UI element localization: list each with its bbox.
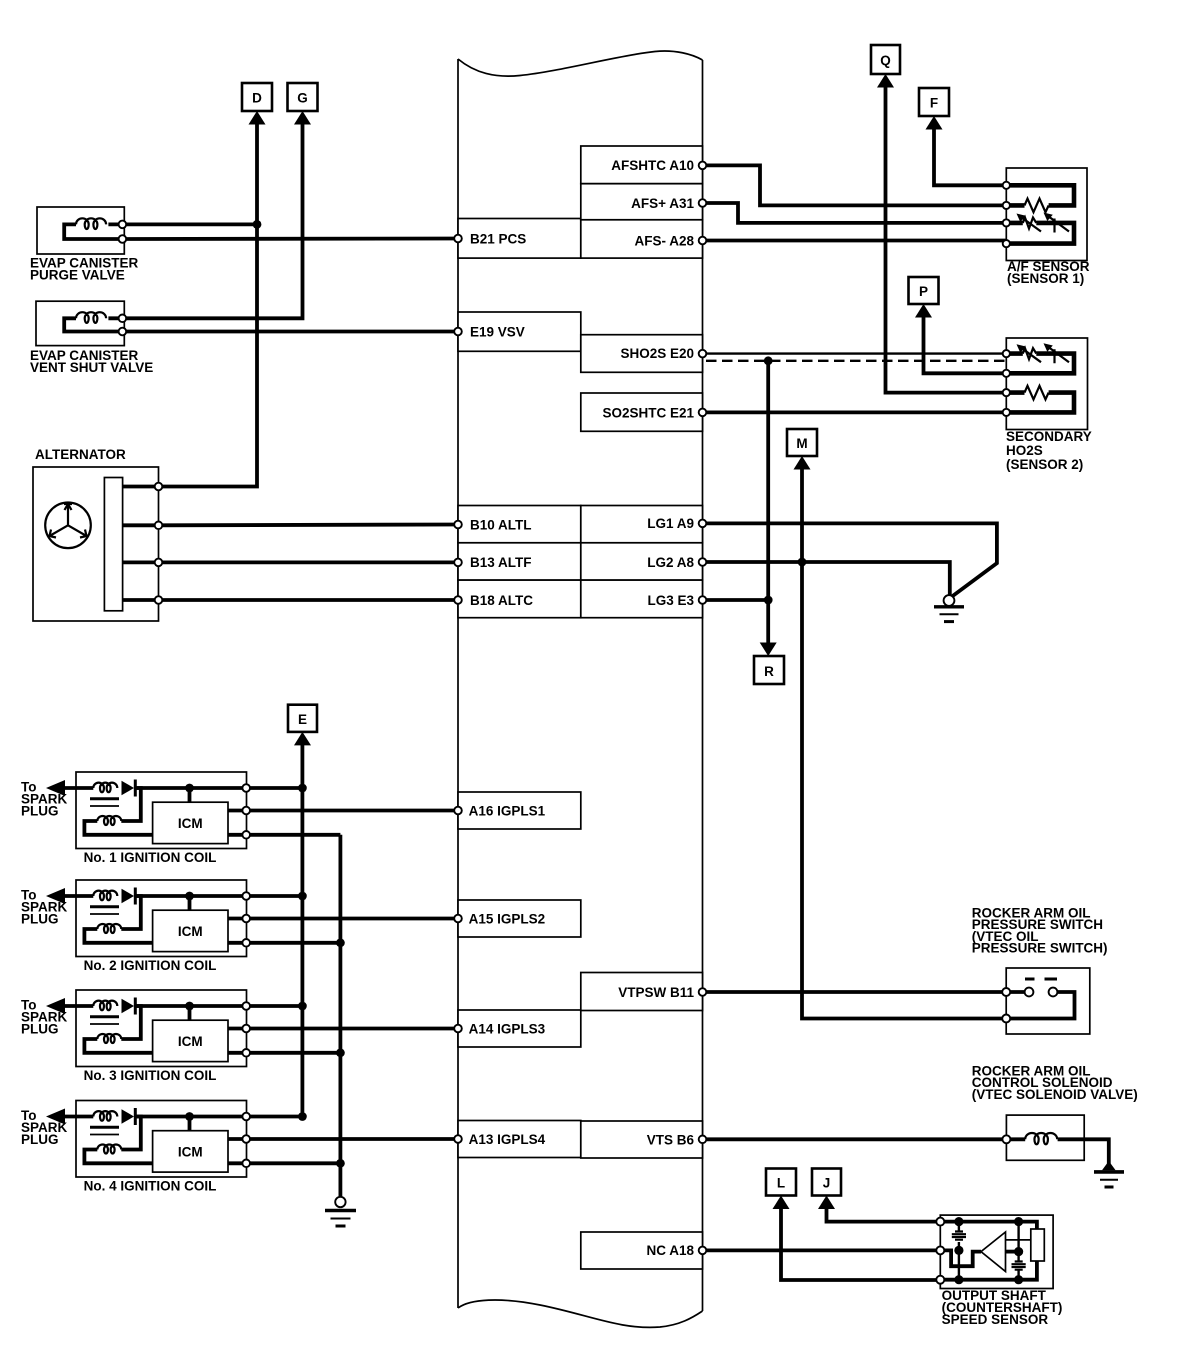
arrow into Q (877, 74, 894, 88)
svg-text:SECONDARY: SECONDARY (1006, 429, 1092, 444)
rocker arm oil pressure switch (1002, 968, 1090, 1034)
wire SO2SHTC E21 to HO2S terminal 4 (703, 410, 1007, 414)
svg-text:M: M (796, 436, 807, 451)
switch contacts (1025, 988, 1034, 997)
ignition coil No.2 (21, 880, 462, 957)
pin box E19 VSV (458, 312, 581, 351)
svg-text:No. 3 IGNITION COIL: No. 3 IGNITION COIL (84, 1068, 217, 1083)
variable arrow 2 with tick (1048, 216, 1069, 233)
svg-text:(SENSOR 1): (SENSOR 1) (1007, 271, 1084, 286)
ground symbol LG (934, 595, 964, 622)
svg-text:B21 PCS: B21 PCS (470, 231, 526, 246)
pin box B10 ALTL (458, 506, 581, 543)
wire M to pressure switch (802, 467, 1006, 1019)
terminal LG3 E3 (699, 596, 707, 604)
coil winding (76, 218, 106, 229)
connector box P (909, 277, 939, 304)
arrow into R (downward) (760, 643, 777, 657)
svg-text:No. 4 IGNITION COIL: No. 4 IGNITION COIL (84, 1179, 217, 1194)
wire VTPSW B11 to switch (703, 990, 1007, 994)
junction dot coil4 ground (336, 1159, 345, 1168)
svg-text:AFS+ A31: AFS+ A31 (631, 196, 694, 211)
wire alternator to B13 ALTF (159, 561, 459, 565)
wire AFS+ A31 to A/F sensor terminal 3 (703, 203, 1007, 223)
wire VTS B6 to solenoid (703, 1137, 1007, 1141)
wire AFSHTC A10 to A/F sensor terminal 2 (703, 165, 1007, 205)
output shaft (countershaft) speed sensor (936, 1215, 1053, 1288)
wire purge valve t2 to B21 PCS (122, 237, 458, 241)
switch internal wiring (1006, 992, 1074, 1019)
svg-text:F: F (930, 96, 938, 111)
wire solenoid to ground (1084, 1139, 1109, 1165)
alternator terminal wires (123, 487, 159, 601)
junction dot coil3 ground (336, 1048, 345, 1057)
wire F to A/F sensor terminal 1 (934, 127, 1006, 185)
svg-text:LG1 A9: LG1 A9 (647, 516, 694, 531)
wire shield to R (766, 361, 770, 645)
svg-text:NC A18: NC A18 (646, 1243, 694, 1258)
svg-text:L: L (777, 1176, 785, 1191)
pin box A15 IGPLS2 (458, 900, 581, 937)
wire L to speed sensor t3 (781, 1207, 940, 1280)
svg-text:A16 IGPLS1: A16 IGPLS1 (469, 803, 546, 818)
arrow into L (773, 1196, 790, 1210)
ignition coil No.3 (21, 990, 462, 1067)
connector box L (766, 1169, 796, 1196)
shield dashed line (706, 360, 1006, 362)
wire J to speed sensor t1 (827, 1207, 941, 1222)
pin box AFSHTC A10 (581, 146, 703, 184)
svg-text:B10 ALTL: B10 ALTL (470, 517, 532, 532)
svg-text:LG2 A8: LG2 A8 (647, 555, 694, 570)
junction dot shield to R (764, 356, 773, 365)
heater loop t1-t2 (1006, 185, 1074, 205)
svg-text:D: D (252, 91, 262, 106)
terminal VTS B6 (699, 1136, 707, 1144)
wire AFS- A28 to A/F sensor terminal 4 (703, 239, 1007, 243)
terminal B13 ALTF (454, 559, 462, 567)
wire alternator to B10 ALTL (159, 523, 459, 528)
ground symbol for ignition coils (325, 1197, 356, 1226)
rocker arm oil control solenoid (VTEC solenoid valve) (1002, 1115, 1084, 1160)
variable arrow 1 (1021, 217, 1041, 232)
terminal alternator t3 (155, 559, 163, 567)
arrow into J (818, 1196, 835, 1210)
pin box A13 IGPLS4 (458, 1121, 581, 1158)
terminal purge t2 (119, 235, 127, 243)
terminal AFS- A28 (699, 237, 707, 245)
middle internal wire to amp (940, 1250, 981, 1266)
terminal B18 ALTC (454, 596, 462, 604)
sensing element loop t1-t2 (1006, 354, 1074, 374)
svg-text:(SENSOR 2): (SENSOR 2) (1006, 457, 1083, 472)
terminal E19 VSV (454, 328, 462, 336)
pin box SHO2S E20 (581, 335, 703, 373)
sensor terminals (936, 1218, 944, 1226)
terminal VTPSW B11 (699, 988, 707, 996)
internal wiring (64, 224, 122, 239)
svg-text:VENT SHUT VALVE: VENT SHUT VALVE (30, 360, 153, 375)
svg-text:R: R (764, 664, 774, 679)
pin box A14 IGPLS3 (458, 1010, 581, 1047)
resistor R heater (1025, 199, 1049, 213)
arrow into D (249, 111, 266, 125)
terminal alternator t4 (155, 596, 163, 604)
wire LG2 A8 to ground (703, 562, 950, 595)
wire alternator to B18 ALTC (159, 598, 459, 602)
pin box B13 ALTF (458, 543, 581, 580)
pin box LG2 A8 (581, 543, 703, 580)
ignition coil common ground line (338, 835, 342, 1197)
pin box VTPSW B11 (581, 973, 703, 1011)
svg-text:No. 2 IGNITION COIL: No. 2 IGNITION COIL (84, 958, 217, 973)
sensor terminals (1003, 350, 1010, 357)
pin box NC A18 (581, 1232, 703, 1269)
pin box SO2SHTC E21 (581, 393, 703, 431)
connector box G (288, 83, 318, 111)
A/F sensor (sensor 1) (1003, 168, 1087, 261)
connector box M (787, 429, 817, 456)
connector box F (919, 88, 949, 116)
pin box AFS+ A31 (581, 184, 703, 220)
label OUTPUT SHAFT (COUNTERSHAFT) SPEED SENSOR (942, 1288, 1063, 1327)
arrow into M (794, 456, 811, 470)
contact bars (1025, 978, 1057, 981)
pin box A16 IGPLS1 (458, 792, 581, 829)
amp outputs (1006, 1239, 1031, 1241)
heater loop t3-t4 (1006, 393, 1074, 413)
variable zigzag element (1023, 218, 1037, 229)
terminal NC A18 (699, 1247, 707, 1255)
sensing element loop t3-t4 (1006, 223, 1074, 244)
wire E common line (300, 743, 304, 1117)
svg-text:HO2S: HO2S (1006, 443, 1043, 458)
ignition coil No.4 (21, 1101, 462, 1178)
arrow into G (294, 111, 311, 125)
op-amp triangle (981, 1232, 1006, 1272)
svg-text:VTS B6: VTS B6 (647, 1132, 695, 1147)
junction dots (954, 1217, 963, 1226)
svg-text:Q: Q (880, 53, 891, 68)
terminal LG2 A8 (699, 558, 707, 566)
junction dot R line on LG3 (764, 596, 773, 605)
bottom internal wire (940, 1261, 1037, 1280)
label ROCKER ARM OIL PRESSURE SWITCH (972, 906, 1108, 956)
junction dot coil2 ground (336, 938, 345, 947)
terminal vent t2 (119, 328, 127, 336)
wire NC A18 to speed sensor t2 (703, 1249, 941, 1253)
connector box E (288, 705, 317, 732)
wire P to HO2S terminal 2 (924, 315, 1007, 373)
svg-text:PRESSURE SWITCH): PRESSURE SWITCH) (972, 941, 1108, 956)
ALTERNATOR (33, 447, 159, 621)
pin box B18 ALTC (458, 580, 581, 618)
alternator 3-phase symbol (45, 503, 91, 549)
resistor heater (1025, 386, 1049, 400)
junction dot purge/D (253, 220, 262, 229)
connector box D (242, 83, 272, 111)
svg-text:PURGE VALVE: PURGE VALVE (30, 268, 125, 283)
terminal B21 PCS (454, 235, 462, 243)
pin box B21 PCS (458, 219, 581, 259)
variable zigzag element (1023, 348, 1037, 359)
wire G to vent shut valve (124, 122, 302, 318)
svg-text:AFS- A28: AFS- A28 (634, 233, 694, 248)
svg-text:SHO2S E20: SHO2S E20 (620, 346, 694, 361)
ignition coil No.1 (21, 772, 462, 849)
svg-text:No. 1 IGNITION COIL: No. 1 IGNITION COIL (84, 850, 217, 865)
terminal SHO2S E20 (699, 350, 707, 358)
terminal AFS+ A31 (699, 199, 707, 207)
terminal purge t1 (119, 221, 127, 229)
alternator connector bar (104, 478, 122, 611)
pin box LG3 E3 (581, 580, 703, 618)
svg-text:AFSHTC A10: AFSHTC A10 (611, 158, 694, 173)
pin box LG1 A9 (581, 506, 703, 543)
svg-text:SPEED SENSOR: SPEED SENSOR (942, 1312, 1049, 1327)
wire D to alternator (159, 122, 258, 487)
svg-text:(VTEC SOLENOID VALVE): (VTEC SOLENOID VALVE) (972, 1087, 1138, 1102)
arrow into P (915, 304, 932, 318)
wire Q to HO2S terminal 3 (886, 85, 1007, 393)
svg-text:E: E (298, 712, 307, 727)
internal wiring (64, 318, 122, 331)
right vertical with resistor (1017, 1222, 1019, 1280)
svg-text:B18 ALTC: B18 ALTC (470, 593, 533, 608)
variable arrow 2 with tick (1048, 347, 1069, 364)
variable arrow 1 (1021, 348, 1041, 363)
switch terminals (1002, 988, 1010, 996)
wire purge valve t1 to D line (122, 222, 257, 226)
terminal SO2SHTC E21 (699, 409, 707, 417)
svg-text:B13 ALTF: B13 ALTF (470, 555, 532, 570)
EVAP canister purge valve (37, 207, 124, 254)
svg-text:SO2SHTC E21: SO2SHTC E21 (602, 406, 694, 421)
secondary HO2S (sensor 2) (1003, 338, 1088, 430)
terminal LG1 A9 (699, 520, 707, 528)
coil winding (76, 312, 106, 323)
wire SHO2S E20 to HO2S terminal 1 (703, 352, 1007, 354)
EVAP canister vent shut valve (36, 301, 124, 345)
svg-text:VTPSW B11: VTPSW B11 (618, 985, 694, 1000)
terminal alternator t1 (155, 483, 163, 491)
wire vent valve t2 to E19 VSV (122, 330, 458, 334)
terminal AFSHTC A10 (699, 162, 707, 170)
ground symbol solenoid (1094, 1161, 1124, 1187)
pin box VTS B6 (581, 1121, 703, 1158)
coil winding (1025, 1133, 1057, 1144)
svg-text:A14 IGPLS3: A14 IGPLS3 (469, 1021, 546, 1036)
svg-text:P: P (919, 284, 928, 299)
svg-text:ALTERNATOR: ALTERNATOR (35, 447, 126, 462)
junction dot M on LG2 (798, 558, 807, 567)
arrow into F (926, 116, 943, 130)
label ROCKER ARM OIL CONTROL SOLENOID (972, 1063, 1138, 1101)
terminal alternator t2 (155, 522, 163, 530)
load resistor rectangle (1031, 1229, 1045, 1261)
svg-text:LG3 E3: LG3 E3 (647, 593, 694, 608)
connector box J (812, 1169, 841, 1196)
internal left vertical with resistor (958, 1222, 960, 1280)
svg-text:J: J (823, 1176, 831, 1191)
top internal wire (940, 1222, 1037, 1229)
svg-text:E19 VSV: E19 VSV (470, 324, 525, 339)
pin box AFS- A28 (581, 220, 703, 258)
wire LG3 E3 (703, 598, 769, 602)
terminal B10 ALTL (454, 521, 462, 529)
connector box Q (871, 45, 900, 74)
ECM main column with torn top and bottom edges (458, 51, 703, 1327)
svg-text:A13 IGPLS4: A13 IGPLS4 (469, 1132, 546, 1147)
connector box R (754, 656, 784, 684)
wire LG1 A9 to ground (703, 523, 997, 596)
arrow into E (294, 732, 311, 746)
terminal vent t1 (119, 315, 127, 323)
svg-text:G: G (297, 91, 308, 106)
sensor terminals (1003, 182, 1010, 189)
svg-text:A15 IGPLS2: A15 IGPLS2 (469, 911, 546, 926)
